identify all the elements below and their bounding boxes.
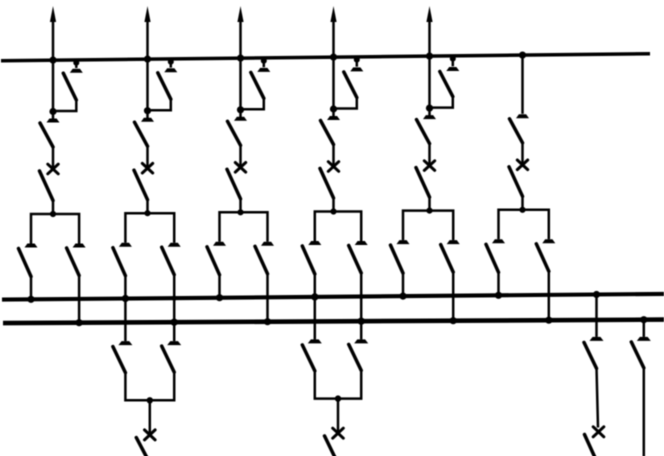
wire node to breaker (outgoing 1) (149, 400, 152, 435)
bus-side disconnector QS42: open blade (320, 169, 334, 199)
wire to bus W2 (bay 6) (497, 272, 500, 296)
outgoing circuit breaker QF (x symbol, outgoing 3) (593, 427, 604, 437)
wire blade to bus-selection node B1 (52, 200, 55, 214)
junction on bus W3 (bay 1) (76, 319, 83, 326)
wire disconnector QS41 to breaker QF4 (332, 144, 335, 167)
wire to bus W3 crossing W2 (bay 1) (78, 275, 81, 323)
bus W3 selector disconnector QS6b: fixed contact bar (542, 239, 555, 243)
outgoing 3 right disconnector: open blade (631, 342, 644, 368)
outgoing 3 right disconnector: fixed contact bar (637, 337, 651, 341)
wire node to breaker (outgoing 2) (337, 399, 340, 434)
outgoing 1 left disconnector: open blade (113, 347, 126, 373)
bus-selection crossbar wire (bay 6) (499, 210, 549, 240)
wire to bus W2 (bay 4) (314, 274, 317, 297)
bypass stub wire (bay 1) (75, 60, 78, 68)
node B2: bus selection split (144, 210, 150, 216)
node A4: feeder/bypass junction (330, 105, 337, 112)
circuit breaker QF5 (x symbol) (424, 161, 434, 171)
node A3: feeder/bypass junction (237, 106, 244, 113)
wire to bus W3 crossing W2 (bay 6) (548, 271, 551, 320)
bus-selection crossbar wire (bay 5) (403, 211, 453, 241)
bus-selection crossbar wire (bay 3) (220, 212, 268, 242)
line disconnector QS11: open blade (40, 123, 53, 147)
incoming line L2 arrow (144, 6, 150, 22)
bypass wire down and across to node (bay 2) (148, 99, 171, 111)
bypass disconnector QS13 (bay 1): fixed contact bar (70, 69, 83, 73)
bus W3 selector disconnector QS2b: open blade (162, 247, 175, 275)
bypass disconnector QS43 (bay 4): open blade (344, 72, 357, 98)
line disconnector QS41: fixed contact bar (327, 116, 340, 120)
outgoing 2 right disconnector: fixed contact bar (354, 339, 368, 343)
outgoing 2 right disconnector: open blade (349, 344, 362, 370)
bypass stub wire (bay 3) (263, 58, 266, 67)
junction: line L1 on bus W1 (49, 57, 56, 64)
bypass wire down and across to node (bay 3) (241, 98, 264, 110)
bus W2 selector disconnector QS4a: open blade (302, 246, 315, 274)
wire to bus W2 (bay 2) (124, 275, 127, 298)
joining wire: legs down and across (outgoing 1) (125, 372, 174, 401)
wire from bus W2 down (outgoing 1 left leg) (124, 299, 127, 342)
line disconnector QS31: fixed contact bar (234, 117, 247, 121)
bus W3 selector disconnector QS1b: fixed contact bar (73, 244, 86, 248)
line disconnector QS11: fixed contact bar (47, 119, 60, 123)
bypass stub wire (bay 5) (452, 56, 455, 67)
junction on bus W3 (outgoing 2) (358, 318, 365, 325)
wire from bus W3 down (outgoing 2 right leg) (360, 321, 363, 339)
wire to bus W3 crossing W2 (bay 4) (360, 273, 363, 322)
circuit breaker QF3 (x symbol) (235, 163, 245, 173)
node C1: outgoing join (147, 397, 153, 403)
bypass disconnector QS53 (bay 5): open blade (440, 72, 453, 97)
wire node A4 to disconnector (332, 109, 335, 117)
junction on bus W2 (outgoing 2) (311, 293, 318, 300)
bypass disconnector QS23 (bay 2): fixed contact bar (164, 68, 177, 72)
junction: line L2 on bus W1 (144, 56, 151, 63)
node A1: feeder/bypass junction (49, 108, 56, 115)
line disconnector QS61: fixed contact bar (516, 114, 529, 118)
junction on bus W2 (bay 6) (495, 292, 502, 299)
wire right leg down to image edge (outgoing 3) (643, 367, 646, 456)
bus W2 selector disconnector QS1a: open blade (19, 249, 32, 277)
bypass disconnector QS53 (bay 5): fixed contact bar (446, 67, 459, 71)
circuit breaker QF1 (x symbol) (48, 164, 58, 174)
incoming line L2 wire down to bus W1 (146, 18, 149, 111)
bypass stub wire (bay 2) (170, 59, 173, 68)
bus-side disconnector QS12: open blade (40, 171, 54, 201)
line disconnector QS51: open blade (417, 120, 430, 144)
bus W2 selector disconnector QS4a: fixed contact bar (308, 241, 321, 245)
wire from bus W2 down (outgoing 3 left leg) (595, 295, 598, 337)
junction on bus W2 (bay 5) (399, 293, 406, 300)
bypass disconnector QS13 (bay 1): open blade (63, 73, 76, 100)
outgoing disconnector blade (cut at image edge, outgoing 2) (325, 436, 336, 456)
crossing junction blob on bus W2 (172, 296, 177, 301)
bus-selection crossbar wire (bay 4) (315, 212, 361, 242)
node B4: bus selection split (330, 208, 336, 214)
wire to bus W3 crossing W2 (bay 5) (452, 272, 455, 321)
bus W2 selector disconnector QS3a: open blade (207, 247, 220, 275)
bus W2 selector disconnector QS3a: fixed contact bar (213, 242, 226, 246)
junction on bus W3 (bay 3) (264, 318, 271, 325)
junction on bus W2 (outgoing 1) (122, 295, 129, 302)
wire node A3 to disconnector (239, 110, 242, 118)
bypass wire down and across to node (bay 4) (334, 97, 357, 109)
junction on bus W2 (bay 4) (311, 293, 318, 300)
wire node A2 to disconnector (146, 111, 149, 119)
bypass branch junction on bus W1 (bay 1) (73, 60, 79, 66)
incoming line L4 arrow (330, 6, 336, 22)
incoming line L5 arrow (426, 6, 432, 22)
bypass branch junction on bus W1 (bay 2) (168, 59, 174, 65)
node A2: feeder/bypass junction (144, 107, 151, 114)
bus W3 selector disconnector QS4b: open blade (349, 246, 362, 274)
node B5: bus selection split (426, 208, 432, 214)
wire disconnector QS51 to breaker QF5 (428, 143, 431, 166)
line disconnector QS41: open blade (321, 121, 334, 145)
wire to bus W2 (bay 5) (402, 273, 405, 297)
bus W3 selector disconnector QS5b: open blade (441, 245, 454, 273)
wire to bus W2 (bay 1) (30, 276, 33, 299)
crossing junction blob on bus W2 (359, 294, 364, 299)
wire from bus W1 down (bay 6) (521, 55, 524, 114)
bypass branch junction on bus W1 (bay 3) (261, 58, 267, 64)
node A5: feeder/bypass junction (426, 105, 433, 112)
junction on bus W3 (bay 4) (358, 318, 365, 325)
junction on bus W2 (outgoing 3) (593, 291, 600, 298)
wire to bus W2 (bay 3) (218, 274, 221, 297)
line disconnector QS21: open blade (135, 122, 148, 146)
wire node A5 to disconnector (428, 108, 431, 116)
incoming line L5 wire down to bus W1 (428, 18, 431, 108)
bus W2 selector disconnector QS2a: open blade (113, 248, 126, 276)
wire disconnector QS61 to breaker QF6 (521, 142, 524, 165)
bypass disconnector QS33 (bay 3): fixed contact bar (257, 68, 270, 72)
bus-side disconnector QS32: open blade (227, 169, 241, 199)
outgoing disconnector blade (cut at image edge, outgoing 3) (585, 435, 595, 456)
bus W2 selector disconnector QS5a: open blade (391, 245, 404, 273)
circuit breaker QF4 (x symbol) (328, 162, 338, 172)
bus W3 selector disconnector QS3b: open blade (255, 246, 268, 273)
bus W2 selector disconnector QS6a: fixed contact bar (492, 239, 505, 243)
bus-selection crossbar wire (bay 2) (125, 213, 174, 243)
bus-side disconnector QS62: open blade (509, 167, 523, 197)
incoming line L1 arrow (50, 6, 56, 22)
wire blade to bus-selection node B4 (332, 198, 335, 212)
outgoing 1 right disconnector: open blade (162, 346, 175, 372)
outgoing circuit breaker QF (x symbol, outgoing 1) (145, 430, 156, 440)
wire from bus W2 down (outgoing 2 left leg) (314, 297, 317, 340)
junction on bus W3 (bay 5) (450, 317, 457, 324)
bypass wire down and across to node (bay 1) (53, 100, 76, 112)
junction on bus W3 (outgoing 1) (171, 319, 178, 326)
outgoing 2 left disconnector: open blade (302, 345, 315, 371)
bypass branch junction on bus W1 (bay 4) (354, 57, 360, 63)
junction: line L4 on bus W1 (330, 54, 337, 61)
junction on bus W3 (bay 6) (545, 317, 552, 324)
node B6: bus selection split (519, 207, 525, 213)
bypass disconnector QS43 (bay 4): fixed contact bar (350, 67, 363, 71)
wire blade to bus-selection node B5 (428, 197, 431, 211)
node C2: outgoing join (335, 395, 341, 401)
outgoing 1 right disconnector: fixed contact bar (167, 341, 181, 345)
outgoing disconnector blade (cut at image edge, outgoing 1) (136, 438, 147, 456)
junction: line L3 on bus W1 (237, 55, 244, 62)
bus-side disconnector QS52: open blade (416, 168, 430, 198)
bypass stub wire (bay 4) (356, 57, 359, 67)
outgoing 1 left disconnector: fixed contact bar (118, 341, 132, 345)
junction on bus W3 (bay 2) (171, 319, 178, 326)
bypass branch junction on bus W1 (bay 5) (450, 56, 456, 62)
line disconnector QS61: open blade (510, 119, 523, 143)
junction on bus W2 (bay 3) (216, 294, 223, 301)
bus-side disconnector QS22: open blade (134, 170, 148, 200)
bus W3 selector disconnector QS3b: fixed contact bar (261, 242, 274, 246)
wire blade to bus-selection node B3 (239, 198, 242, 212)
junction on bus W3 (outgoing 3) (640, 316, 647, 323)
line disconnector QS31: open blade (228, 121, 241, 145)
line disconnector QS21: fixed contact bar (141, 118, 154, 122)
bus W2 selector disconnector QS5a: fixed contact bar (397, 240, 410, 244)
transfer busbar W3 (lower of double bus) (3, 320, 664, 324)
wire from bus W3 down (outgoing 3 right leg) (643, 320, 646, 337)
circuit breaker QF6 (x symbol) (517, 160, 527, 170)
bus W3 selector disconnector QS6b: open blade (536, 244, 549, 271)
bus W3 selector disconnector QS1b: open blade (67, 248, 80, 276)
incoming line L1 wire down to bus W1 (52, 18, 55, 112)
bus W2 selector disconnector QS1a: fixed contact bar (25, 244, 38, 248)
wire disconnector QS11 to breaker QF1 (52, 147, 55, 170)
junction on bus W2 (bay 2) (122, 295, 129, 302)
junction on bus W2 (bay 1) (27, 296, 34, 303)
bus W2 selector disconnector QS2a: fixed contact bar (119, 243, 132, 247)
wire blade to bus-selection node B6 (521, 196, 524, 210)
wire blade to bus-selection node B2 (146, 199, 149, 213)
wire disconnector QS21 to breaker QF2 (146, 146, 149, 169)
line disconnector QS51: fixed contact bar (423, 115, 436, 119)
junction: line L5 on bus W1 (426, 53, 433, 60)
bus W3 selector disconnector QS5b: fixed contact bar (447, 240, 460, 244)
outgoing 3 left disconnector: fixed contact bar (590, 337, 604, 341)
bypass wire down and across to node (bay 5) (430, 96, 453, 108)
top busbar W1 (1, 54, 650, 61)
wire to bus W3 crossing W2 (bay 3) (266, 273, 269, 321)
incoming line L3 wire down to bus W1 (239, 18, 242, 110)
bus-selection crossbar wire (bay 1) (31, 214, 79, 244)
main busbar W2 (upper of double bus) (2, 294, 664, 300)
wire from bus W3 down (outgoing 1 right leg) (173, 322, 176, 341)
outgoing circuit breaker QF (x symbol, outgoing 2) (333, 428, 344, 438)
junction: bay 6 tap on bus W1 (519, 52, 526, 59)
node B1: bus selection split (50, 211, 56, 217)
node B3: bus selection split (237, 209, 243, 215)
bus W3 selector disconnector QS4b: fixed contact bar (355, 241, 368, 245)
bus W3 selector disconnector QS2b: fixed contact bar (168, 243, 181, 247)
wire disconnector QS31 to breaker QF3 (239, 145, 242, 168)
incoming line L4 wire down to bus W1 (332, 18, 335, 109)
bypass disconnector QS23 (bay 2): open blade (158, 73, 171, 99)
outgoing 3 left disconnector: open blade (584, 342, 597, 368)
bus W2 selector disconnector QS6a: open blade (486, 244, 499, 272)
outgoing 2 left disconnector: fixed contact bar (308, 339, 322, 343)
circuit breaker QF2 (x symbol) (142, 163, 152, 173)
incoming line L3 arrow (237, 6, 243, 22)
wire node A1 to disconnector (52, 112, 55, 120)
joining wire: legs down and across (outgoing 2) (315, 370, 361, 399)
bypass disconnector QS33 (bay 3): open blade (251, 72, 264, 98)
wire left leg down to breaker (outgoing 3) (597, 367, 599, 427)
wire to bus W3 crossing W2 (bay 2) (173, 274, 176, 322)
